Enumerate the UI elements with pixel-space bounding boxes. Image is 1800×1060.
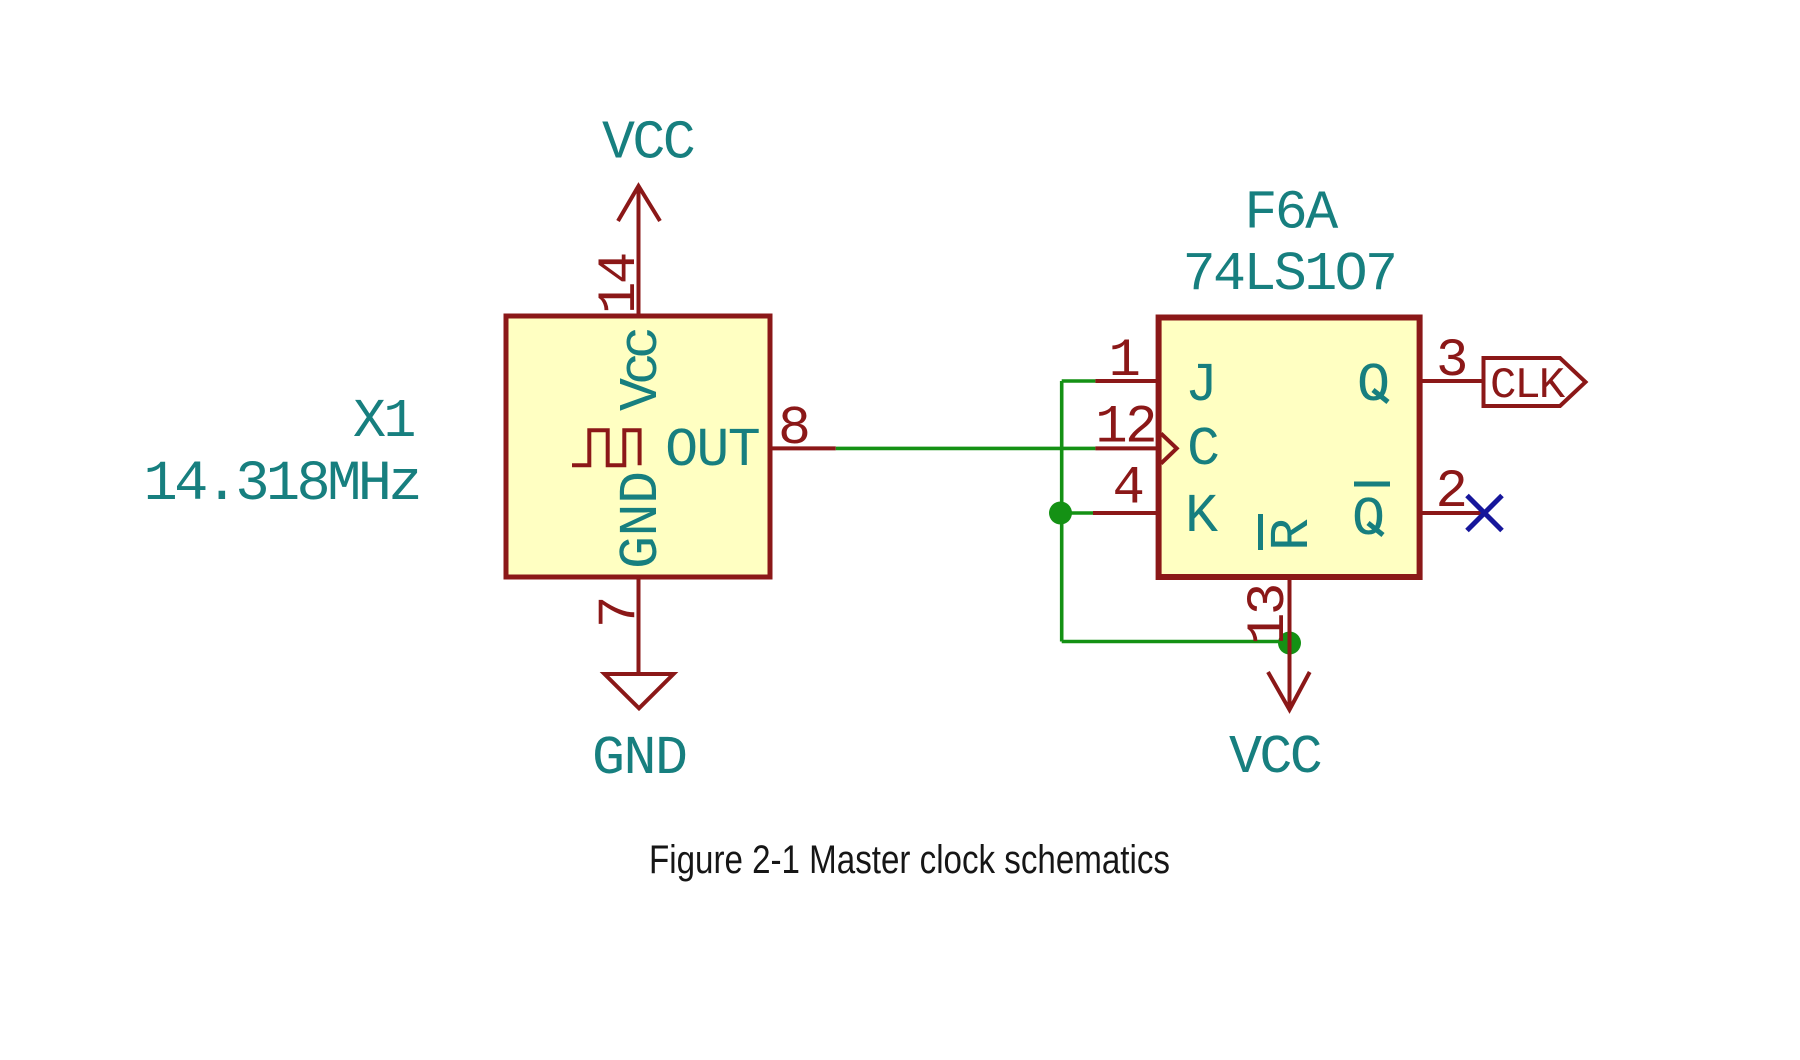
VCC power symbol bottom arrow: [1268, 672, 1310, 710]
svg-text:1: 1: [1109, 331, 1139, 392]
junction at K pin: [1049, 502, 1072, 525]
pin 1 J stub: [1095, 379, 1158, 383]
pin 2 Qbar stub: [1420, 511, 1484, 515]
svg-text:F6A: F6A: [1244, 182, 1338, 245]
svg-text:OUT: OUT: [665, 419, 759, 482]
svg-text:VCC: VCC: [1229, 726, 1321, 789]
svg-text:12: 12: [1095, 398, 1155, 459]
svg-text:4: 4: [1113, 459, 1143, 520]
svg-text:CLK: CLK: [1490, 361, 1566, 411]
pin 3 Q stub: [1420, 379, 1484, 383]
pin 4 K stub: [1093, 511, 1158, 515]
wire OUT to C: [836, 447, 1096, 451]
X1 pin 7: [637, 577, 641, 674]
X1 waveform symbol: [572, 430, 640, 465]
svg-text:X1: X1: [353, 390, 414, 453]
svg-text:14: 14: [590, 254, 651, 314]
svg-text:R: R: [1261, 519, 1324, 551]
svg-text:Vcc: Vcc: [610, 330, 673, 411]
svg-text:J: J: [1185, 354, 1215, 417]
svg-text:7: 7: [590, 598, 651, 628]
wire stub to J pin: [1062, 379, 1096, 383]
pin 13 R stub: [1288, 577, 1292, 710]
Rbar overline: [1258, 514, 1263, 550]
wire J-K vertical: [1060, 381, 1064, 642]
X1 pin 8 OUT stub: [770, 446, 836, 450]
no-connect X on pin 2: [1467, 496, 1502, 531]
svg-text:3: 3: [1436, 331, 1466, 392]
svg-text:2: 2: [1436, 462, 1466, 523]
ground symbol: [605, 674, 674, 708]
junction at pin 13: [1278, 632, 1301, 655]
svg-text:8: 8: [778, 397, 809, 460]
svg-text:VCC: VCC: [602, 112, 694, 175]
svg-text:C: C: [1187, 418, 1218, 481]
wire bottom horizontal to pin 13: [1062, 640, 1290, 644]
svg-text:74LS1O7: 74LS1O7: [1183, 243, 1396, 306]
crystal oscillator X1 body: [506, 316, 770, 577]
svg-text:O: O: [1352, 488, 1383, 551]
svg-text:GND: GND: [610, 471, 673, 569]
pin 12 C stub: [1095, 446, 1158, 450]
svg-text:Figure 2-1 Master clock schema: Figure 2-1 Master clock schematics: [649, 838, 1170, 882]
clock input chevron: [1161, 434, 1177, 464]
svg-text:K: K: [1185, 485, 1218, 548]
global label CLK outline: [1484, 358, 1586, 406]
svg-text:13: 13: [1239, 585, 1300, 645]
svg-text:GND: GND: [592, 727, 687, 790]
svg-text:14.318MHz: 14.318MHz: [144, 453, 419, 517]
X1 pin 14: [637, 186, 641, 316]
Qbar overline: [1354, 482, 1390, 487]
JK flip-flop F6A 74LS107 body: [1159, 318, 1420, 578]
VCC power symbol top arrow: [618, 186, 660, 221]
svg-text:O: O: [1357, 354, 1388, 417]
wire stub to K pin: [1062, 511, 1093, 515]
